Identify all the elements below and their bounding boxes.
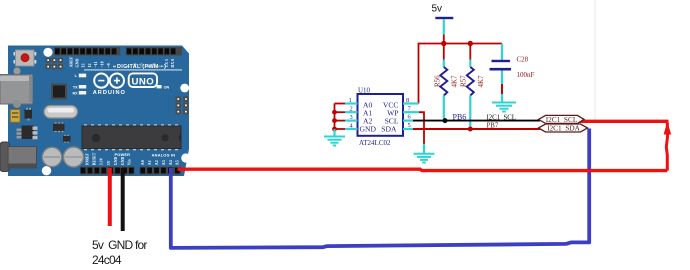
svg-text:4K7: 4K7 (451, 75, 459, 88)
svg-text:A0: A0 (140, 160, 145, 165)
svg-text:I2C1 SCL: I2C1 SCL (546, 115, 578, 124)
svg-text:PB7: PB7 (487, 123, 499, 130)
small transistor (25, 108, 33, 121)
digital header strip right (126, 47, 182, 55)
svg-text:ANALOG IN: ANALOG IN (152, 152, 176, 157)
svg-text:13: 13 (81, 64, 86, 68)
ICSP header 2x3 (176, 96, 189, 114)
svg-text:6: 6 (408, 114, 411, 121)
L led (75, 73, 87, 78)
svg-text:R56: R56 (434, 75, 442, 87)
svg-text:100nF: 100nF (517, 71, 535, 79)
svg-text:I2C1_SCL: I2C1_SCL (487, 114, 516, 121)
svg-text:24c04: 24c04 (92, 253, 122, 267)
red arrowhead (664, 122, 672, 135)
capacitor C28 (490, 44, 512, 102)
junction node R56 top (441, 41, 446, 46)
U10 left pin stubs (345, 104, 358, 130)
svg-text:Vin: Vin (128, 159, 132, 166)
svg-text:GND: GND (360, 125, 377, 134)
power pin stub (443, 19, 445, 35)
power pin labels (86, 152, 132, 165)
svg-text:U10: U10 (358, 87, 371, 95)
polyfuse (10, 110, 20, 123)
mounting hole bottom-left (42, 166, 51, 175)
svg-text:ON: ON (164, 85, 170, 89)
female header 2x3 grid (46, 58, 64, 70)
ground below C28 (492, 103, 516, 112)
power header strip (80, 167, 135, 175)
analog pin labels (140, 160, 180, 165)
svg-text:3.3V: 3.3V (100, 157, 104, 165)
net PB7 wire (SDA) (413, 128, 540, 130)
svg-text:RX 0: RX 0 (170, 59, 175, 68)
reset button (14, 50, 37, 66)
svg-text:A1: A1 (147, 160, 152, 165)
svg-text:~11: ~11 (93, 62, 98, 68)
resistor R56 (440, 44, 447, 119)
svg-text:ARDUINO: ARDUINO (93, 90, 126, 96)
arduino infinity logo (94, 74, 124, 88)
svg-text:5V: 5V (107, 160, 111, 165)
junction node pin4 (332, 127, 337, 132)
svg-text:5v GND for: 5v GND for (92, 238, 147, 252)
svg-text:4K7: 4K7 (477, 75, 485, 88)
net PB6 wire (SCL) (413, 120, 540, 122)
wire red SCL vertical (666, 123, 667, 171)
RX led (72, 91, 86, 95)
svg-text:DIGITAL (PWM ~): DIGITAL (PWM ~) (117, 64, 166, 70)
svg-text:PB6: PB6 (453, 113, 467, 122)
resistor R57 (467, 44, 474, 127)
svg-text:A3: A3 (161, 160, 166, 165)
svg-text:TX: TX (73, 85, 78, 89)
svg-text:~9: ~9 (106, 63, 111, 67)
address bus wires left (335, 104, 346, 132)
I2C1 SDA flag (539, 124, 588, 133)
wire black GND down (121, 168, 125, 231)
wire red thick from SCL flag (576, 120, 669, 123)
electrolytic capacitor 1 (42, 147, 61, 166)
svg-text:~10: ~10 (100, 61, 105, 67)
svg-text:SDA: SDA (381, 125, 397, 134)
mounting hole top-left (43, 48, 52, 57)
small 8pin ic (53, 122, 65, 132)
svg-text:RX: RX (72, 91, 78, 95)
mounting hole top-right (180, 84, 189, 93)
svg-text:IOREF: IOREF (86, 152, 90, 165)
wire vcc rail (419, 44, 503, 104)
ground below WP (414, 154, 435, 163)
svg-text:UNO: UNO (132, 77, 155, 88)
junction node R56 bottom (443, 118, 448, 123)
svg-text:GND: GND (114, 157, 118, 166)
wire red SCL horizontal (A5 to right) (178, 169, 668, 170)
junction node R57 top (468, 41, 473, 46)
svg-text:RESET: RESET (93, 152, 97, 165)
mounting hole bottom-right (181, 153, 190, 162)
svg-text:A5: A5 (175, 160, 180, 165)
wire WP to ground (419, 112, 424, 153)
UNO badge (129, 73, 157, 87)
decoupling cap near usb (13, 67, 20, 74)
svg-text:GND: GND (121, 157, 125, 166)
silk line under digital (84, 69, 182, 71)
svg-text:C28: C28 (517, 55, 529, 63)
svg-text:12: 12 (87, 64, 92, 68)
atmega16u2 chip (51, 84, 67, 100)
svg-text:A4: A4 (168, 160, 173, 165)
ON led (157, 85, 170, 89)
junction node R57 bottom (468, 127, 473, 132)
voltage regulator (17, 126, 38, 140)
svg-text:AREF: AREF (68, 56, 73, 67)
svg-text:GND: GND (74, 59, 79, 68)
svg-text:5v: 5v (432, 3, 443, 14)
power jack (0, 142, 37, 172)
atmega328 dip chip (82, 124, 181, 150)
svg-text:I2C1 SDA: I2C1 SDA (547, 124, 581, 133)
U10 right pin stubs (403, 104, 419, 130)
tiny 5pin ic (63, 135, 71, 143)
arduino board PCB (8, 46, 189, 177)
digital pin labels (68, 56, 175, 67)
power symbol 5v (435, 17, 453, 19)
wire 5v to rail (443, 35, 445, 44)
svg-text:R57: R57 (460, 75, 468, 87)
U10 pin numbers (349, 97, 412, 130)
TX led (73, 85, 86, 89)
svg-text:POWER: POWER (114, 152, 130, 157)
junction node pin3 (332, 118, 337, 123)
IC U10 box (358, 94, 404, 136)
svg-text:AT24LC02: AT24LC02 (359, 139, 391, 147)
junction node pin2 (332, 110, 337, 115)
U10 pin name texts (360, 101, 399, 134)
I2C1 SCL flag (539, 115, 585, 124)
ground left bus (324, 129, 345, 146)
wire blue SDA (A4 to flag) (171, 129, 589, 248)
wire red 5V down (108, 168, 112, 226)
usb connector (0, 75, 33, 109)
analog header strip (140, 167, 182, 175)
svg-text:A2: A2 (154, 160, 159, 165)
crystal oscillator (44, 106, 78, 119)
electrolytic capacitor 2 (64, 147, 84, 167)
faint panel edge line (594, 0, 596, 120)
digital header strip left (54, 47, 121, 55)
